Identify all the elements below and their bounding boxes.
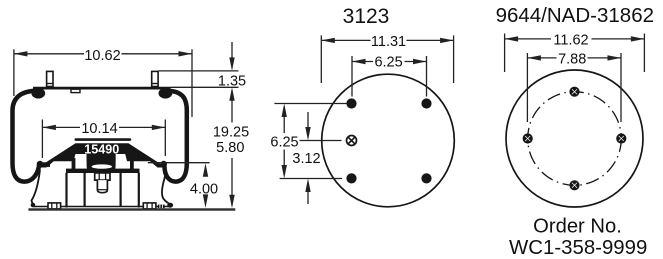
svg-text:15490: 15490	[84, 143, 119, 157]
svg-text:3.12: 3.12	[292, 151, 320, 167]
foot bracket right	[158, 205, 165, 209]
dimension 1.35 down arrow	[231, 42, 233, 58]
bolt shaft	[97, 180, 107, 193]
dimension 4.00 down arrow	[203, 194, 208, 208]
dimension 6.25 left line	[283, 116, 285, 133]
bolt hole top-right	[421, 98, 431, 108]
svg-text:6.25: 6.25	[374, 54, 402, 70]
dimension 10.14 line	[42, 126, 80, 128]
dimension 1.35 extension line lower (plate top)	[171, 86, 239, 88]
bolt hex head	[95, 173, 110, 180]
dimension 11.31 line	[321, 39, 370, 41]
crown white cutout left	[72, 154, 87, 167]
dimension 11.31 extension lines	[320, 35, 322, 83]
bead blob left	[31, 88, 45, 99]
hook knuckle right	[161, 161, 167, 167]
dimension 7.88 extension lines	[526, 53, 528, 122]
dimension 10.62 extension line left	[13, 49, 15, 96]
crown cap bar	[75, 138, 132, 141]
crown center dome	[87, 152, 116, 171]
dimension 10.14 extension line left	[41, 120, 43, 159]
dimension 10.62 extension line right	[191, 49, 193, 117]
svg-text:3123: 3123	[343, 5, 390, 28]
crown white window	[92, 164, 112, 168]
dimension 3.12 up arrow	[307, 191, 309, 204]
piston wall inner left	[83, 173, 85, 207]
dimension 19.25 down arrow bottom	[229, 195, 234, 209]
bolt hole bottom	[569, 180, 579, 190]
piston wall outer left	[65, 173, 67, 208]
dimension 10.14 extension line right	[164, 120, 166, 157]
dimension 6.25 left arrows	[282, 104, 287, 118]
dimension 10.62 arrow left	[14, 51, 28, 56]
outer flange circle	[506, 70, 643, 207]
svg-text:9644/NAD-31862: 9644/NAD-31862	[496, 4, 654, 27]
piston skirt left	[32, 170, 41, 205]
svg-text:WC1-358-9999: WC1-358-9999	[509, 237, 647, 259]
svg-text:Order No.: Order No.	[533, 216, 622, 238]
piston skirt right	[162, 174, 170, 205]
dimension 6.25 top line	[352, 61, 373, 63]
dimension 10.62 line	[14, 53, 84, 55]
dimension 11.62 extension lines	[504, 34, 506, 73]
stud right	[152, 71, 158, 86]
crown band strut left	[72, 158, 76, 170]
bolt hole top-left	[346, 98, 356, 108]
bolt hole right	[616, 133, 626, 143]
svg-text:7.88: 7.88	[558, 51, 586, 67]
dimension 1.35 up arrow (shared with 19.25)	[229, 87, 234, 101]
dimension 3.12 down arrow	[307, 112, 309, 128]
dimension 6.25 top arrows	[352, 59, 366, 64]
piston bottom line	[33, 206, 171, 208]
svg-text:5.80: 5.80	[216, 140, 244, 156]
bolt circle (dash-dot)	[528, 92, 622, 186]
dimension 4.00 extension line (piston ledge)	[148, 162, 210, 164]
dimension 11.62 line	[505, 38, 551, 40]
hook knuckle left	[37, 161, 43, 167]
dimension 19.25 / 5.80 line	[231, 100, 233, 123]
piston top ring band	[66, 169, 140, 173]
bolt hole left	[523, 133, 533, 143]
bolt hole bottom-right	[421, 173, 431, 183]
dimension 7.88 arrows	[527, 55, 541, 60]
bead blob right	[159, 88, 173, 99]
dimension 4.00 up arrow	[203, 163, 208, 177]
top plate	[33, 87, 171, 90]
bolt hole bottom-left	[346, 173, 356, 183]
dimension 10.62 arrow right	[179, 51, 193, 56]
left extension line top dots row	[274, 103, 346, 105]
piston crown (black trapezoid)	[38, 143, 166, 167]
dimension 10.14 arrow left	[42, 125, 56, 130]
piston wall outer right	[138, 173, 140, 208]
svg-text:19.25: 19.25	[213, 124, 249, 140]
crown band strut right	[130, 158, 134, 170]
skirt foot tip right	[167, 203, 173, 208]
bellows left wall	[13, 91, 40, 182]
mounting baseline	[28, 208, 235, 210]
svg-text:1.35: 1.35	[218, 73, 246, 89]
crown white cutout right	[116, 154, 129, 167]
dimension 11.62 arrows	[505, 36, 518, 41]
piston wall inner right	[119, 173, 121, 207]
left extension line inlet row	[300, 140, 342, 142]
svg-text:4.00: 4.00	[190, 181, 218, 197]
bolt hole top	[569, 87, 579, 97]
stud left	[47, 71, 53, 86]
dimension 10.14 arrow right	[152, 125, 166, 130]
svg-text:11.62: 11.62	[553, 32, 588, 48]
top view circle	[322, 74, 455, 207]
foot bolt tab left	[48, 203, 61, 209]
svg-text:11.31: 11.31	[371, 34, 406, 50]
dimension 11.31 arrows	[321, 38, 335, 43]
bolt shaft cap line	[97, 189, 107, 191]
svg-text:6.25: 6.25	[270, 135, 298, 151]
bellows right wall	[164, 91, 186, 182]
skirt foot tip left	[31, 203, 36, 208]
top plate clip tab	[71, 89, 80, 92]
svg-text:10.14: 10.14	[81, 121, 117, 137]
left extension line bottom dots row	[280, 178, 343, 180]
svg-text:10.62: 10.62	[84, 48, 120, 64]
air inlet symbol	[347, 136, 357, 146]
dimension 7.88 line	[527, 57, 556, 59]
dimension 6.25 top extension lines	[351, 56, 353, 97]
dimension 1.35 extension line upper (stud top)	[159, 70, 239, 72]
foot bolt tab right	[143, 203, 156, 209]
